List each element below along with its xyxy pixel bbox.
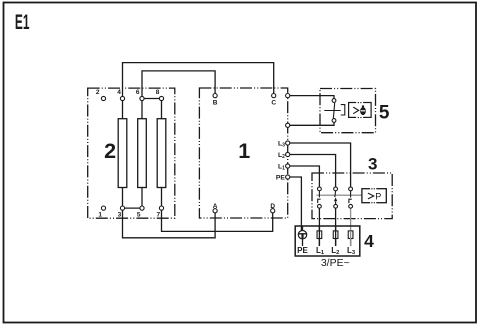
wire L1 to pole1 — [288, 166, 320, 187]
pressure sensor gt symbol — [368, 193, 374, 199]
terminal 1 — [101, 206, 105, 210]
enclosure box 1 — [199, 88, 287, 218]
limiter contact bottom — [332, 119, 336, 123]
wire terminal6 to R2 — [141, 96, 143, 118]
temperature sensor theta — [360, 105, 366, 115]
svg-text:D: D — [270, 203, 275, 210]
terminal A — [213, 209, 217, 213]
wire 7 to D (bottom) — [162, 206, 273, 231]
limiter switch lever — [333, 103, 334, 118]
enclosure box 3 — [312, 173, 392, 219]
terminal PE — [286, 175, 290, 179]
svg-text:A: A — [213, 203, 218, 210]
wire 6 to B (top) — [142, 71, 215, 96]
wire link 6-8 — [142, 98, 162, 100]
wire 3 to A (bottom) — [123, 206, 216, 238]
wire pole3 to fuse3 (grey) — [350, 208, 352, 238]
wire R3 to terminal7 — [161, 188, 163, 207]
wire limiter bottom to box1 — [288, 123, 334, 126]
svg-text:2: 2 — [104, 139, 116, 163]
svg-text:B: B — [213, 100, 218, 107]
svg-text:8: 8 — [156, 89, 160, 96]
fuse L1 — [317, 231, 322, 239]
wire L3 to pole3 — [288, 143, 351, 187]
terminal box1-a (to 5) — [286, 94, 290, 98]
terminal 4 — [120, 96, 124, 100]
pressure sensor box — [362, 189, 386, 203]
limiter actuator line — [324, 110, 340, 112]
svg-text:P: P — [375, 191, 381, 201]
PE terminal symbol — [298, 226, 306, 246]
wire pole1 to fuse1 — [318, 208, 320, 246]
temperature sensor gt symbol — [353, 107, 359, 114]
svg-text:5: 5 — [379, 102, 390, 123]
terminal box 4 — [295, 226, 360, 256]
svg-text:L3: L3 — [278, 141, 285, 149]
terminal 5 — [140, 206, 144, 210]
svg-text:PE: PE — [276, 175, 286, 182]
svg-text:4: 4 — [364, 231, 374, 251]
wire 4 to C (top) — [123, 63, 274, 97]
fuse L3 — [348, 231, 353, 239]
pole3 contacts — [349, 187, 353, 191]
terminal 3 — [120, 206, 124, 210]
terminal 6 — [140, 96, 144, 100]
terminal C — [272, 94, 276, 98]
terminal D — [271, 209, 275, 213]
terminal B — [213, 94, 217, 98]
pole2 lever — [334, 191, 337, 205]
enclosure box 5 — [320, 89, 376, 133]
wire L2 to pole2 — [288, 155, 336, 187]
coupling line — [316, 194, 362, 196]
svg-text:3: 3 — [118, 211, 122, 218]
svg-text:L1: L1 — [278, 164, 285, 172]
wire link 3-5 — [123, 207, 143, 209]
pole3 lever — [349, 191, 352, 203]
terminal 7 — [159, 206, 163, 210]
terminal 2 — [101, 96, 105, 100]
wire R1 to terminal3 — [122, 188, 124, 207]
svg-text:PE: PE — [297, 246, 308, 255]
wire terminal4 to R1 — [122, 96, 124, 118]
terminal box1-b (to 5) — [286, 123, 290, 127]
wire PE to box4 — [288, 177, 302, 230]
svg-text:2: 2 — [96, 89, 100, 96]
svg-text:1: 1 — [98, 211, 102, 218]
wire terminal8 to R3 — [161, 99, 163, 119]
pole2 contacts — [334, 187, 338, 191]
terminal L2 — [286, 152, 290, 156]
svg-text:6: 6 — [136, 89, 140, 96]
heating element R1 — [118, 119, 127, 188]
terminal 8 — [159, 96, 163, 100]
svg-text:4: 4 — [117, 89, 121, 96]
svg-text:3: 3 — [368, 154, 377, 173]
pole1 lever — [318, 191, 321, 203]
terminal L1 — [286, 164, 290, 168]
limiter contact top — [332, 99, 336, 103]
wire R2 to terminal5 — [141, 188, 143, 209]
svg-text:1: 1 — [238, 139, 250, 163]
svg-text:3/PE~: 3/PE~ — [321, 257, 350, 269]
svg-text:5: 5 — [137, 211, 141, 218]
svg-text:E1: E1 — [15, 11, 30, 34]
fuse L2 — [333, 231, 338, 239]
heating element R3 — [157, 119, 166, 188]
enclosure box 2 — [88, 88, 175, 218]
wire pole2 to fuse2 — [335, 208, 337, 246]
svg-text:7: 7 — [156, 211, 160, 218]
pole1 contacts — [318, 187, 322, 191]
wire box1 to limiter top — [288, 96, 334, 99]
svg-text:C: C — [271, 100, 276, 107]
terminal L3 — [286, 141, 290, 145]
temperature sensor box — [349, 103, 372, 118]
svg-text:L2: L2 — [278, 152, 285, 160]
heating element R2 — [138, 119, 147, 188]
limiter fork — [341, 105, 345, 115]
